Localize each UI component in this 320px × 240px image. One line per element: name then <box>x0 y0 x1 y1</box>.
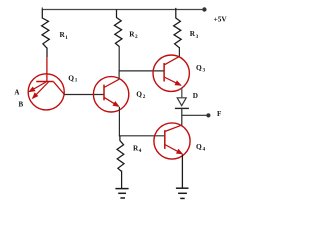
Q2 emitter <box>104 97 119 106</box>
wire: Q1 collector to Q2 base <box>64 94 104 96</box>
svg-text:F: F <box>217 110 222 118</box>
resistor R1 <box>42 10 50 49</box>
wire: node to Q4 base <box>119 135 165 137</box>
wire: Q2 collector up to node <box>118 70 120 79</box>
terminal dot: +5V supply <box>202 7 206 11</box>
svg-text:1: 1 <box>75 78 78 84</box>
Q4 base bar <box>164 130 166 149</box>
Q2 base bar <box>103 85 105 101</box>
wire: diode to F node to Q4 collector <box>181 108 183 125</box>
wire: R1 lower lead black part <box>46 48 48 58</box>
ground (under Q4) <box>176 188 189 198</box>
Q3 emitter <box>164 77 181 85</box>
wire: +5V top rail <box>42 8 202 10</box>
Q4 collector <box>165 125 181 131</box>
svg-text:B: B <box>19 100 24 108</box>
transistor Q3 <box>153 55 189 91</box>
resistor R4 <box>117 136 124 172</box>
wire: Q2 emitter down to node <box>118 107 120 136</box>
svg-text:Q: Q <box>136 90 142 99</box>
svg-text:3: 3 <box>203 68 206 74</box>
wire: R1 lower lead red part to Q1 base <box>46 57 48 82</box>
wire: R2 lower lead to node <box>118 46 120 71</box>
Q4 emitter <box>165 145 182 154</box>
Q2 collector <box>104 79 119 87</box>
resistor R2 <box>114 10 122 47</box>
Q1 emitter 1 (input A) <box>29 82 46 92</box>
wire: Q4 emitter to ground <box>181 155 183 189</box>
ground (under R4) <box>115 189 128 198</box>
transistor Q1 (multi-emitter input) <box>28 74 64 110</box>
svg-text:Q: Q <box>196 142 202 151</box>
svg-text:Q: Q <box>68 73 74 82</box>
transistor Q2 (phase splitter) <box>93 77 128 112</box>
svg-text:Q: Q <box>196 63 202 72</box>
wire: node to Q3 base <box>119 70 165 72</box>
svg-text:1: 1 <box>65 35 68 41</box>
Q3 base bar <box>163 63 165 82</box>
resistor R3 <box>174 8 182 48</box>
wire: R3 lower lead to Q3 collector <box>178 47 180 57</box>
svg-text:4: 4 <box>203 147 206 153</box>
Q1 emitter 2 (input B) <box>33 82 49 98</box>
wire: F node to output terminal <box>182 114 207 116</box>
svg-text:D: D <box>193 92 198 100</box>
Q1 collector <box>54 82 65 95</box>
terminal dot: output F <box>206 113 210 117</box>
Q1 base bar <box>36 81 53 83</box>
svg-text:4: 4 <box>139 148 142 154</box>
svg-text:2: 2 <box>143 94 146 100</box>
diode D <box>175 98 189 109</box>
svg-text:3: 3 <box>196 34 199 40</box>
transistor Q4 (output pull-down) <box>154 123 190 159</box>
wire: Q3 emitter down to diode <box>181 88 183 98</box>
wire: R4 lower lead to ground <box>121 171 123 189</box>
svg-text:A: A <box>14 89 19 97</box>
svg-text:2: 2 <box>135 34 138 40</box>
Q3 collector <box>164 56 179 65</box>
svg-text:+5V: +5V <box>214 15 228 24</box>
